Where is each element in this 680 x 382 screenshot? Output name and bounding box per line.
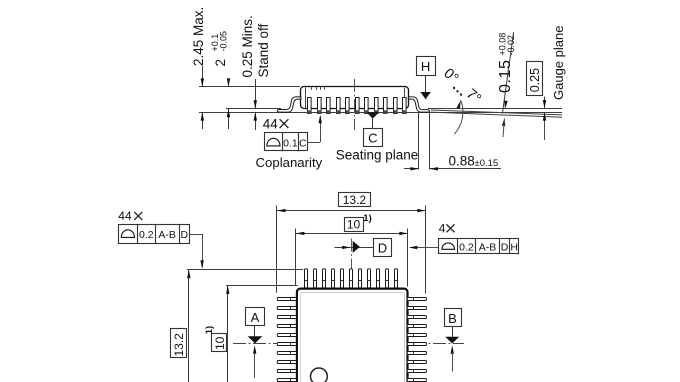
svg-text:13.2: 13.2 (172, 333, 186, 357)
svg-text:0.2: 0.2 (459, 241, 474, 253)
svg-text:B: B (448, 311, 457, 326)
svg-text:A-B: A-B (158, 229, 176, 241)
svg-text:D: D (378, 240, 387, 255)
svg-text:H: H (421, 59, 430, 74)
svg-text:1): 1) (363, 213, 371, 224)
svg-text:44: 44 (118, 209, 132, 223)
svg-text:4: 4 (439, 222, 446, 236)
svg-text:C: C (368, 131, 377, 146)
svg-text:2: 2 (213, 59, 228, 67)
svg-text:Coplanarity: Coplanarity (256, 155, 323, 170)
svg-text:-0.02: -0.02 (506, 35, 516, 56)
svg-text:Seating plane: Seating plane (336, 148, 419, 163)
svg-text:2.45 Max.: 2.45 Max. (191, 7, 206, 66)
svg-text:Gauge plane: Gauge plane (551, 26, 566, 100)
svg-text:10: 10 (213, 336, 227, 350)
svg-text:10: 10 (347, 218, 361, 232)
svg-text:13.2: 13.2 (343, 193, 367, 207)
svg-text:-0.05: -0.05 (219, 31, 229, 52)
svg-text:0.2: 0.2 (139, 229, 154, 241)
svg-text:A-B: A-B (479, 241, 497, 253)
svg-text:0.25: 0.25 (528, 68, 542, 92)
svg-text:0.25 Mins.: 0.25 Mins. (240, 15, 255, 77)
svg-text:0.88: 0.88 (449, 153, 475, 168)
svg-text:C: C (299, 137, 307, 149)
svg-text:44: 44 (263, 117, 279, 132)
svg-text:Stand off: Stand off (256, 23, 271, 77)
svg-text:H: H (510, 241, 518, 253)
svg-text:D: D (501, 241, 509, 253)
svg-text:±0.15: ±0.15 (475, 158, 499, 169)
svg-text:0.1: 0.1 (283, 137, 298, 149)
svg-text:D: D (181, 229, 189, 241)
svg-text:A: A (251, 310, 260, 325)
svg-text:0.15: 0.15 (497, 59, 514, 93)
